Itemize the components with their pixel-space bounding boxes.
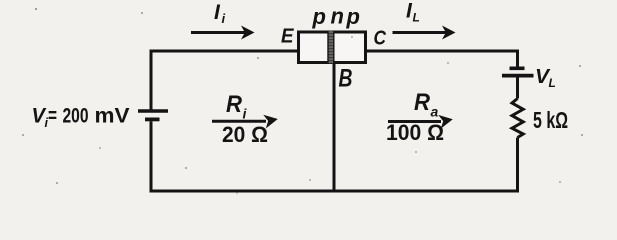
wire right vertical below resistor [516,138,519,190]
svg-text:200: 200 [63,104,89,127]
svg-text:n: n [331,4,344,29]
wire top-right (C to right corner and down to battery) [366,51,518,67]
scan noise specks [22,8,583,194]
battery V_L short plate [510,67,525,71]
arrow R_a [388,120,441,123]
svg-text:B: B [339,65,353,93]
wire top-left (E to left corner and down to battery) [151,51,298,110]
battery V_L long plate [502,74,534,78]
svg-text:p: p [346,4,360,29]
svg-text:C: C [374,26,388,49]
svg-text:E: E [281,25,295,48]
transistor n-region strip [328,31,335,64]
transistor body (pnp block) [299,32,366,63]
arrow I_L [393,31,447,34]
svg-text:R: R [226,91,243,118]
svg-text:mV: mV [95,104,130,127]
wire right vertical between battery and resistor [516,78,519,99]
svg-text:=: = [48,104,57,127]
svg-text:20 Ω: 20 Ω [222,122,268,147]
svg-text:100 Ω: 100 Ω [386,120,444,145]
svg-text:a: a [431,103,439,119]
battery V_i short plate [145,118,160,122]
svg-text:i: i [222,11,226,26]
wire base lead B down to bottom [333,62,336,190]
arrow R_i [212,120,266,123]
svg-text:L: L [413,11,420,25]
svg-text:5 kΩ: 5 kΩ [533,107,568,133]
wire bottom [150,190,520,193]
svg-text:R: R [414,89,431,116]
battery V_i long plate [138,109,168,112]
resistor RL zigzag 5 kOhm [512,99,523,138]
arrow I_i [191,31,245,34]
wire left vertical below battery [150,121,153,189]
svg-text:p: p [312,4,326,29]
svg-text:L: L [549,76,556,90]
